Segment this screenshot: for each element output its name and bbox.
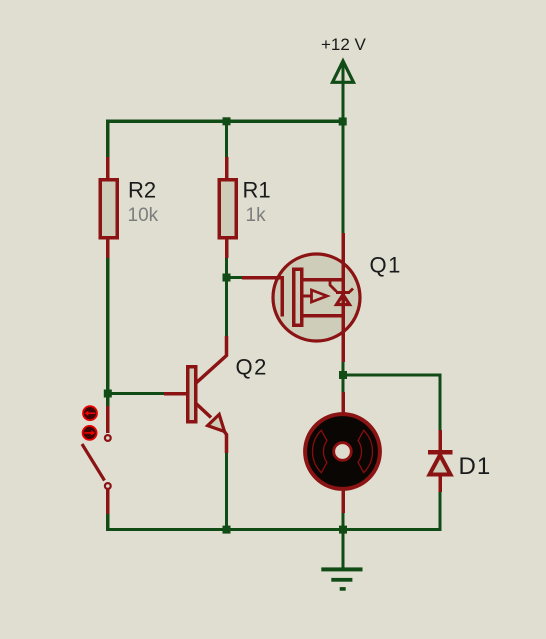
hub	[334, 443, 352, 461]
motor M1	[305, 392, 380, 513]
mosfet Q1	[242, 233, 360, 362]
label R2	[128, 178, 156, 203]
wire Q2 emitter to bottom rail	[225, 452, 228, 531]
label R1	[243, 178, 271, 203]
resistor R2	[100, 157, 117, 258]
wire diode bottom to bottom rail	[438, 490, 441, 531]
upper contact	[105, 435, 111, 441]
base pin	[164, 392, 187, 396]
button up	[83, 406, 97, 420]
switch SW1	[82, 406, 111, 514]
label Q1	[370, 253, 402, 278]
collector	[196, 336, 227, 383]
gate pin	[242, 276, 284, 280]
label D1	[459, 453, 492, 480]
junction base branch	[104, 390, 112, 398]
lower pin	[106, 489, 110, 514]
body connect with arrow	[302, 295, 312, 298]
wire drain vertical	[341, 121, 344, 235]
wire left vertical R2 to switch	[106, 256, 109, 408]
button down	[83, 426, 97, 440]
wire top rail	[108, 121, 345, 158]
wire switch bottom and bottom rail	[108, 513, 442, 530]
svg-text:1k: 1k	[246, 205, 267, 226]
left brush	[313, 430, 327, 472]
channel plate	[294, 269, 302, 325]
wire gate branch	[227, 276, 245, 279]
svg-text:Q1: Q1	[370, 253, 402, 278]
svg-text:+12 V: +12 V	[321, 35, 367, 54]
drain connect	[302, 278, 345, 282]
label Q2	[236, 355, 268, 380]
wire source to motor junction	[341, 360, 344, 394]
svg-text:10k: 10k	[128, 205, 159, 226]
lever	[82, 444, 105, 481]
gate plate	[280, 277, 284, 317]
svg-text:R2: R2	[128, 178, 156, 203]
upper pin	[106, 406, 110, 433]
svg-text:R1: R1	[243, 178, 271, 203]
junction emitter bottom rail	[223, 526, 231, 534]
source connect	[302, 314, 345, 318]
junction R1 top rail	[223, 117, 231, 125]
value 10k	[128, 205, 159, 226]
value 1k	[246, 205, 267, 226]
wire R1 bottom to gate node	[225, 256, 228, 337]
junction power rail	[339, 118, 347, 126]
emitter	[196, 404, 211, 418]
junction ground node	[339, 526, 347, 534]
right brush	[358, 430, 372, 472]
svg-text:D1: D1	[459, 453, 492, 480]
wire diode branch top	[343, 375, 440, 432]
drain/source vertical through	[341, 233, 345, 362]
diode D1	[428, 430, 453, 492]
svg-text:Q2: Q2	[236, 355, 268, 380]
wire R1 top from rail	[225, 121, 228, 160]
lower contact	[105, 483, 111, 489]
wire motor bottom to ground node	[341, 511, 344, 531]
body diode	[330, 281, 337, 292]
bar	[188, 367, 196, 422]
wire base branch to Q2	[107, 392, 167, 395]
net label +12 V	[321, 35, 367, 54]
ground	[321, 529, 362, 591]
resistor R1	[219, 157, 236, 258]
transistor Q2	[164, 336, 227, 453]
junction motor/diode node	[339, 371, 347, 379]
power +12V terminal	[333, 61, 354, 122]
junction gate node	[223, 274, 231, 282]
